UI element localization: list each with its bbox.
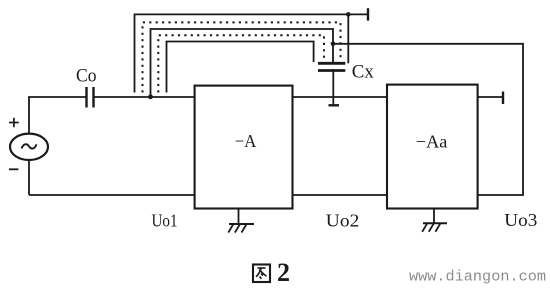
svg-text:Uo1: Uo1 xyxy=(152,210,178,230)
terminal bar below Cx stub xyxy=(329,104,340,106)
wire Aa output to terminal xyxy=(478,96,503,98)
svg-text:−A: −A xyxy=(235,131,256,151)
shield dotted line (inner screen, inner run) xyxy=(158,35,324,92)
minus polarity label xyxy=(9,168,18,170)
wire Cx bottom stub xyxy=(332,71,334,106)
AC source V1 (sine source circle) xyxy=(10,134,48,160)
caption figure 2 glyph (drawn CJK tu) xyxy=(253,265,270,283)
center conductor solid line to Cx xyxy=(151,29,334,97)
wire bottom return source to A xyxy=(29,194,195,196)
capacitor Co xyxy=(87,87,94,108)
junction dot on outer shield xyxy=(346,12,351,17)
shield dotted line (inner screen, outer run) xyxy=(143,22,341,92)
ground symbol under Aa xyxy=(422,209,447,232)
svg-text:2: 2 xyxy=(277,258,290,287)
terminal bar top right xyxy=(367,8,369,20)
svg-text:−Aa: −Aa xyxy=(416,132,448,152)
svg-text:www.diangon.com: www.diangon.com xyxy=(409,270,546,286)
shield inner solid line xyxy=(167,42,314,93)
node A junction dot on main wire xyxy=(148,94,153,99)
svg-text:Cx: Cx xyxy=(352,62,374,83)
wire source to Co xyxy=(28,96,86,98)
capacitor Cx xyxy=(318,63,345,70)
guard vertical from outer shield down to Cx xyxy=(347,14,349,63)
wire A output to Aa input xyxy=(293,96,388,98)
svg-text:Uo3: Uo3 xyxy=(504,210,537,230)
ground symbol under A xyxy=(228,209,254,233)
svg-text:Uo2: Uo2 xyxy=(326,211,360,231)
wire guard tap to right loop into Aa output xyxy=(333,44,523,195)
plus polarity label xyxy=(9,118,19,127)
wire source bottom lead xyxy=(28,160,30,195)
junction dot at Cx guard tap xyxy=(331,42,336,47)
wire Co to amplifier A input xyxy=(94,96,195,98)
shield outer solid line (to ground terminal) xyxy=(135,14,369,92)
op-amp block U1 (-A) xyxy=(195,86,293,209)
wire bottom return A to Aa xyxy=(293,194,388,196)
terminal bar right output xyxy=(502,92,504,105)
svg-text:Co: Co xyxy=(76,66,97,87)
wire source top lead xyxy=(28,97,30,134)
op-amp block U2 (-Aa) xyxy=(387,85,478,209)
